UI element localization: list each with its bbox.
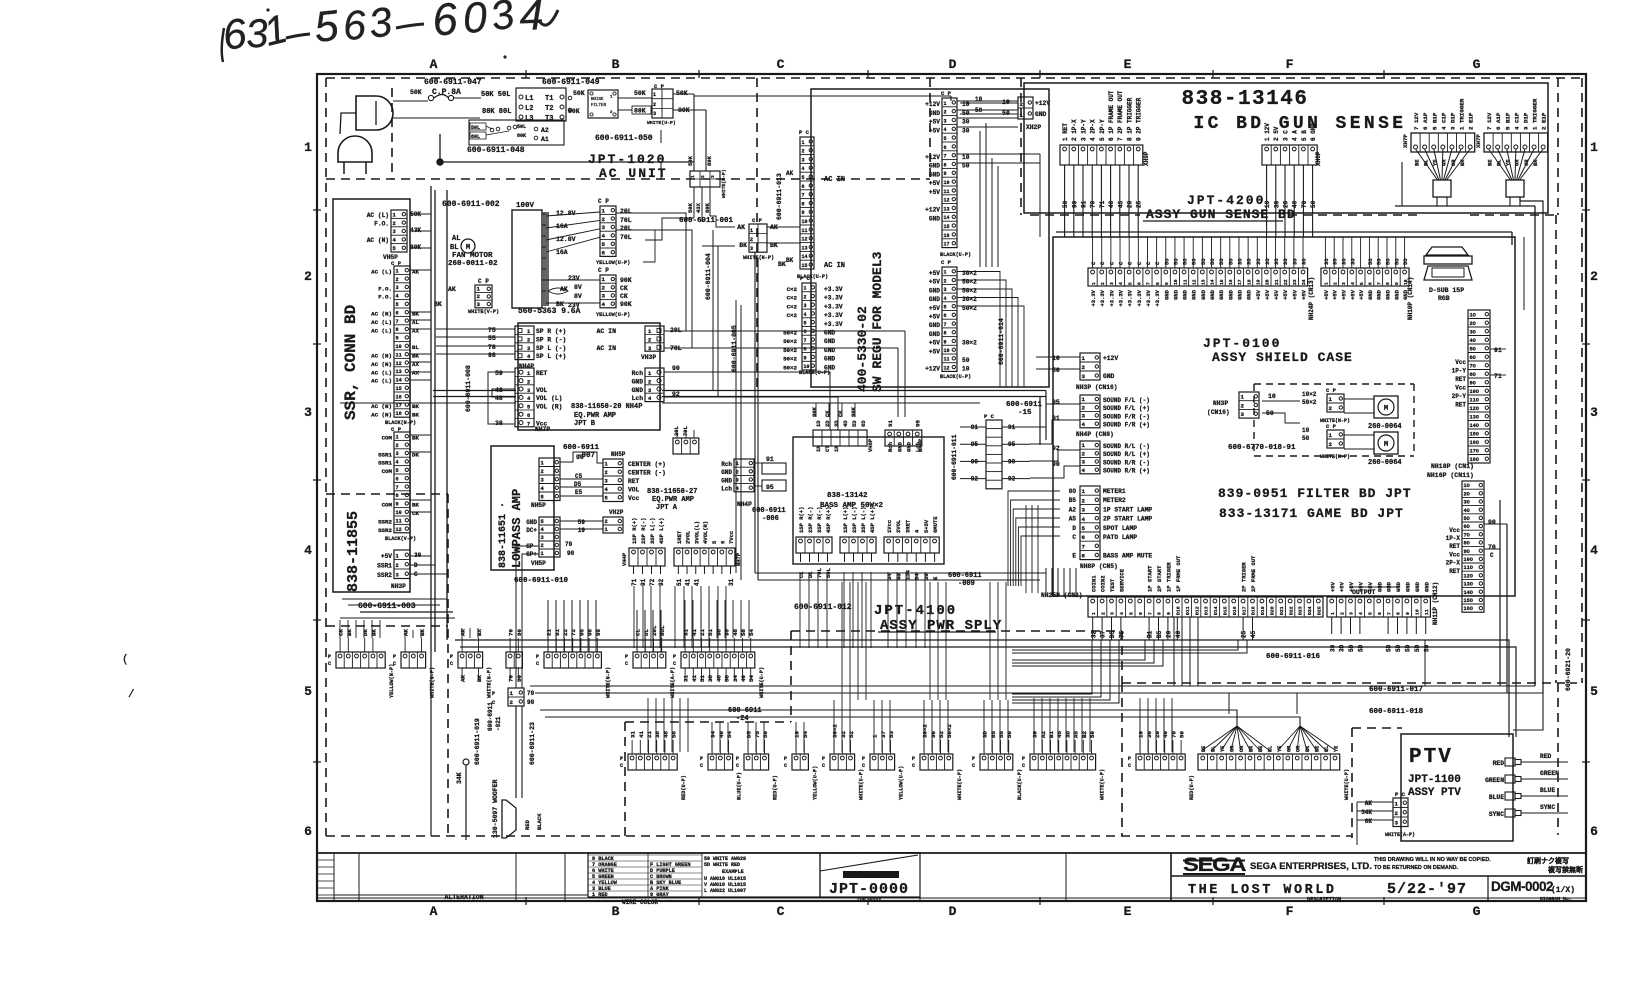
svg-text:2: 2 — [1590, 269, 1598, 284]
svg-text:BK: BK — [786, 257, 794, 264]
svg-text:SSR2: SSR2 — [377, 572, 392, 579]
svg-text:8: 8 — [1385, 282, 1391, 285]
svg-text:3VOL(L): 3VOL(L) — [693, 521, 700, 544]
svg-text:80K 80L: 80K 80L — [482, 108, 511, 116]
svg-text:6 1P FRAME OUT: 6 1P FRAME OUT — [1108, 90, 1115, 141]
svg-text:P: P — [700, 756, 703, 762]
svg-text:600-6911-014: 600-6911-014 — [998, 318, 1005, 365]
svg-text:600-6911-019: 600-6911-019 — [474, 718, 481, 765]
svg-text:BK: BK — [346, 629, 353, 636]
svg-text:L1: L1 — [525, 95, 533, 103]
svg-text:21: 21 — [646, 731, 653, 738]
svg-text:2: 2 — [605, 519, 608, 525]
svg-text:2: 2 — [393, 221, 396, 227]
svg-text:54: 54 — [726, 731, 733, 738]
svg-text:80K: 80K — [706, 155, 713, 166]
svg-text:90K: 90K — [620, 277, 632, 284]
svg-text:AK: AK — [448, 286, 456, 293]
svg-text:3: 3 — [802, 157, 805, 163]
svg-text:11: 11 — [396, 352, 402, 358]
svg-text:5D WHITE RED: 5D WHITE RED — [704, 862, 740, 868]
svg-text:50K: 50K — [687, 155, 694, 166]
svg-text:D: D — [949, 57, 958, 72]
svg-text:COIN2: COIN2 — [1100, 575, 1107, 592]
svg-text:18: 18 — [1246, 279, 1252, 285]
svg-text:20: 20 — [1127, 200, 1134, 208]
svg-text:SEGA ENTERPRISES, LTD.: SEGA ENTERPRISES, LTD. — [1250, 861, 1372, 872]
svg-text:90: 90 — [567, 550, 575, 557]
svg-text:WHITE(A-P): WHITE(A-P) — [670, 667, 676, 698]
svg-text:600-6911: 600-6911 — [1006, 401, 1043, 409]
svg-text:1 12V: 1 12V — [1264, 123, 1271, 141]
svg-text:WHITE(A-P): WHITE(A-P) — [1385, 832, 1415, 838]
svg-text:1: 1 — [393, 212, 396, 218]
svg-text:600-6911-049: 600-6911-049 — [542, 78, 600, 87]
svg-text:2: 2 — [1100, 612, 1106, 615]
svg-text:AC (L): AC (L) — [371, 269, 392, 276]
svg-text:92: 92 — [658, 578, 665, 586]
svg-text:EQ.PWR AMP: EQ.PWR AMP — [652, 496, 694, 504]
svg-text:14: 14 — [802, 254, 808, 260]
svg-text:B5: B5 — [1069, 497, 1077, 504]
svg-text:50×2: 50×2 — [783, 356, 797, 363]
svg-text:P C: P C — [1395, 791, 1406, 798]
svg-text:AC (L): AC (L) — [371, 319, 392, 326]
svg-text:1Vcc: 1Vcc — [886, 520, 893, 533]
svg-text:D5: D5 — [746, 731, 753, 738]
svg-text:1N: 1N — [833, 445, 840, 452]
svg-text:2: 2 — [1082, 364, 1086, 371]
svg-text:50×2: 50×2 — [783, 338, 797, 345]
svg-text:10: 10 — [1415, 609, 1421, 615]
svg-text:JPT A: JPT A — [656, 504, 678, 512]
svg-text:10: 10 — [794, 731, 801, 738]
svg-text:50K: 50K — [634, 90, 646, 97]
svg-text:WHITE(N-P): WHITE(N-P) — [743, 255, 774, 261]
svg-text:10: 10 — [1052, 355, 1060, 362]
svg-text:AK: AK — [786, 170, 794, 177]
svg-text:NH7P: NH7P — [535, 426, 550, 433]
svg-text:15O: 15O — [1464, 598, 1473, 604]
svg-text:600-6911-002: 600-6911-002 — [442, 200, 500, 209]
svg-text:GND: GND — [1385, 289, 1392, 300]
svg-text:2 E1P: 2 E1P — [1468, 112, 1475, 130]
svg-text:20L: 20L — [620, 208, 632, 215]
svg-text:G: G — [1473, 57, 1482, 72]
svg-text:3D: 3D — [1064, 731, 1071, 738]
svg-text:BK: BK — [778, 261, 786, 268]
svg-text:Lch: Lch — [721, 486, 732, 493]
svg-text:4: 4 — [519, 0, 545, 40]
svg-text:30: 30 — [1273, 200, 1280, 208]
svg-text:D24: D24 — [1307, 606, 1313, 615]
svg-text:600-6911: 600-6911 — [948, 572, 982, 580]
svg-text:1SP L(+): 1SP L(+) — [842, 507, 849, 533]
svg-text:91: 91 — [640, 578, 647, 586]
svg-text:14O: 14O — [1470, 423, 1479, 429]
svg-text:15: 15 — [396, 386, 402, 392]
svg-text:C P: C P — [598, 198, 609, 205]
svg-text:SOUND F/L (-): SOUND F/L (-) — [1103, 397, 1150, 404]
svg-text:C: C — [777, 904, 786, 919]
svg-text:BLACK(U-P): BLACK(U-P) — [940, 252, 971, 258]
svg-text:6: 6 — [1368, 282, 1374, 285]
svg-text:50: 50 — [1423, 644, 1430, 652]
svg-text:8: 8 — [1396, 612, 1402, 615]
svg-text:2P-Y: 2P-Y — [1452, 393, 1467, 400]
svg-text:400-5330-02: 400-5330-02 — [855, 306, 870, 392]
svg-text:600-6911-008: 600-6911-008 — [465, 365, 472, 412]
svg-text:ASSY SHIELD CASE: ASSY SHIELD CASE — [1212, 350, 1353, 365]
svg-text:3D: 3D — [1339, 644, 1346, 652]
svg-text:3O: 3O — [1464, 500, 1470, 506]
svg-text:DIAGRAM No.: DIAGRAM No. — [1540, 896, 1572, 902]
svg-text:3: 3 — [396, 285, 399, 291]
svg-text:50K: 50K — [573, 90, 585, 97]
svg-text:50×2: 50×2 — [783, 364, 797, 371]
svg-text:3: 3 — [710, 175, 716, 178]
svg-text:11: 11 — [396, 518, 402, 524]
svg-text:6: 6 — [804, 329, 807, 335]
svg-text:1N: 1N — [815, 445, 822, 452]
svg-text:12: 12 — [944, 198, 950, 204]
svg-text:2: 2 — [1332, 282, 1338, 285]
svg-text:D17: D17 — [1241, 606, 1247, 615]
svg-text:5: 5 — [1368, 612, 1374, 615]
svg-text:+5V: +5V — [1341, 289, 1348, 300]
svg-text:38: 38 — [654, 731, 661, 738]
svg-text:+3.3V: +3.3V — [1145, 289, 1152, 306]
svg-text:2: 2 — [541, 469, 544, 475]
svg-text:GND: GND — [1393, 289, 1400, 300]
svg-text:3O: 3O — [1349, 258, 1356, 265]
svg-text:+5V: +5V — [929, 119, 940, 126]
svg-text:4VOL(R): 4VOL(R) — [702, 521, 709, 544]
svg-text:600-6911-047: 600-6911-047 — [424, 78, 482, 87]
svg-text:BLACK(U-P): BLACK(U-P) — [799, 370, 830, 376]
svg-text:+5V: +5V — [381, 553, 392, 560]
svg-text:95: 95 — [915, 420, 922, 427]
svg-text:1: 1 — [1395, 801, 1399, 808]
svg-text:1: 1 — [653, 92, 656, 98]
svg-text:10: 10 — [396, 344, 402, 350]
svg-text:40: 40 — [1175, 630, 1182, 638]
svg-text:6: 6 — [341, 1, 367, 48]
svg-text:A2: A2 — [1040, 731, 1047, 738]
svg-text:C: C — [393, 661, 396, 667]
svg-text:4: 4 — [1082, 516, 1086, 523]
svg-text:THIS DRAWING WILL IN NO WAY B: THIS DRAWING WILL IN NO WAY BE COPIED. — [1374, 857, 1491, 863]
svg-text:20L: 20L — [620, 225, 632, 232]
svg-text:GREEN: GREEN — [1540, 770, 1559, 777]
svg-text:C: C — [972, 763, 975, 769]
svg-text:3: 3 — [1082, 373, 1086, 380]
svg-text:2: 2 — [1329, 405, 1333, 412]
svg-text:1: 1 — [605, 527, 608, 533]
svg-text:5: 5 — [396, 302, 399, 308]
svg-text:16: 16 — [1228, 279, 1234, 285]
svg-text:20: 20 — [1265, 279, 1271, 285]
svg-text:38: 38 — [707, 675, 714, 682]
svg-text:METER1: METER1 — [1103, 488, 1126, 495]
svg-text:B1: B1 — [1147, 630, 1154, 638]
svg-text:5D: 5D — [1395, 644, 1402, 652]
svg-text:30×2: 30×2 — [962, 340, 977, 347]
svg-text:600-6911: 600-6911 — [728, 707, 762, 715]
svg-text:C: C — [450, 661, 453, 667]
svg-text:Vcc: Vcc — [1455, 359, 1466, 366]
svg-text:8: 8 — [944, 162, 947, 168]
svg-text:5: 5 — [304, 684, 312, 699]
svg-text:1: 1 — [1241, 394, 1245, 401]
svg-text:1: 1 — [804, 286, 807, 292]
svg-text:90: 90 — [576, 454, 584, 461]
svg-text:7 2P FRAME OUT: 7 2P FRAME OUT — [1117, 90, 1124, 141]
svg-text:100V: 100V — [516, 202, 535, 210]
svg-text:+5V: +5V — [1255, 289, 1262, 300]
svg-text:70L: 70L — [620, 217, 632, 224]
svg-text:9: 9 — [802, 210, 805, 216]
svg-text:BLUE: BLUE — [1489, 794, 1504, 801]
svg-text:7: 7 — [804, 338, 807, 344]
svg-text:BLUE(U-P): BLUE(U-P) — [737, 772, 743, 800]
svg-text:DK: DK — [362, 629, 369, 636]
svg-text:2: 2 — [477, 293, 481, 300]
svg-text:50×2: 50×2 — [946, 724, 953, 738]
svg-text:30: 30 — [1146, 731, 1153, 738]
svg-text:838-11650-20 NH4P: 838-11650-20 NH4P — [571, 403, 642, 411]
svg-text:5 B: 5 B — [1301, 130, 1308, 141]
svg-text:10: 10 — [944, 180, 950, 186]
svg-text:2: 2 — [304, 269, 312, 284]
svg-text:AC IN: AC IN — [824, 262, 845, 270]
svg-text:50: 50 — [1310, 200, 1317, 208]
svg-text:JPT-1020: JPT-1020 — [588, 152, 666, 167]
svg-text:7: 7 — [1082, 543, 1086, 550]
svg-text:9: 9 — [1394, 282, 1400, 285]
svg-text:3D: 3D — [982, 731, 989, 738]
svg-text:TEST: TEST — [1109, 578, 1116, 592]
svg-text:50: 50 — [762, 731, 769, 738]
svg-text:12: 12 — [944, 365, 950, 371]
svg-text:C: C — [328, 661, 331, 667]
svg-text:5O: 5O — [1464, 516, 1470, 522]
svg-text:+5V: +5V — [1323, 289, 1330, 300]
svg-text:F: F — [1286, 57, 1295, 72]
svg-text:CK: CK — [620, 285, 628, 292]
svg-text:5D: 5D — [1386, 644, 1393, 652]
svg-text:600-6911-013: 600-6911-013 — [776, 173, 783, 220]
svg-text:VOL: VOL — [536, 387, 548, 394]
svg-text:WHITE(U-P): WHITE(U-P) — [859, 769, 865, 800]
svg-text:51: 51 — [699, 675, 706, 682]
svg-text:+3.3V: +3.3V — [1108, 289, 1115, 306]
svg-text:3O: 3O — [1291, 258, 1298, 265]
svg-text:260-0011-02: 260-0011-02 — [448, 260, 498, 268]
svg-text:40: 40 — [740, 675, 747, 682]
svg-text:10: 10 — [962, 101, 970, 108]
svg-text:SSR2: SSR2 — [378, 519, 392, 526]
svg-text:SSR1: SSR1 — [378, 451, 392, 458]
svg-text:1 TRIGGER: 1 TRIGGER — [1532, 98, 1539, 130]
svg-text:SSR1: SSR1 — [377, 563, 392, 570]
svg-text:75: 75 — [754, 731, 761, 738]
svg-text:BK: BK — [412, 403, 419, 410]
svg-text:+3.3V: +3.3V — [1154, 289, 1161, 306]
svg-text:32: 32 — [1090, 630, 1097, 638]
svg-text:6O: 6O — [1464, 524, 1470, 530]
svg-text:-021: -021 — [495, 716, 502, 731]
svg-text:3: 3 — [1590, 405, 1598, 420]
svg-text:BL: BL — [1495, 159, 1502, 166]
svg-text:P: P — [1128, 756, 1131, 762]
svg-text:1: 1 — [304, 140, 312, 155]
svg-text:600-6911-050: 600-6911-050 — [595, 134, 653, 143]
svg-text:4 A: 4 A — [1292, 130, 1299, 141]
svg-text:+3.3V: +3.3V — [1127, 289, 1134, 306]
svg-text:12O: 12O — [1464, 573, 1473, 579]
svg-text:70: 70 — [1090, 200, 1097, 208]
svg-text:1P-Y: 1P-Y — [1452, 368, 1467, 375]
svg-text:P C: P C — [984, 413, 995, 420]
svg-text:19: 19 — [578, 527, 586, 534]
svg-text:3D: 3D — [833, 420, 840, 427]
svg-text:BL: BL — [1267, 746, 1273, 752]
svg-text:53: 53 — [888, 731, 895, 738]
svg-text:5 B1P: 5 B1P — [1504, 112, 1511, 130]
svg-text:SYNC: SYNC — [1489, 811, 1504, 818]
svg-text:3O: 3O — [1470, 330, 1476, 336]
svg-text:55: 55 — [998, 731, 1005, 738]
svg-text:12: 12 — [396, 527, 402, 533]
svg-text:6: 6 — [1138, 612, 1144, 615]
svg-text:50: 50 — [1052, 367, 1060, 374]
svg-text:14: 14 — [944, 215, 950, 221]
svg-text:10: 10 — [1138, 731, 1145, 738]
svg-text:+3.3V: +3.3V — [824, 303, 843, 310]
svg-text:P: P — [673, 654, 676, 660]
svg-text:AK: AK — [560, 286, 568, 293]
svg-text:Vcc: Vcc — [1455, 385, 1466, 392]
svg-text:50: 50 — [962, 163, 970, 170]
svg-text:+5V: +5V — [929, 127, 940, 134]
svg-text:2: 2 — [1241, 402, 1245, 409]
svg-text:600-6911-018: 600-6911-018 — [1369, 708, 1424, 716]
svg-text:3 D1P: 3 D1P — [1449, 112, 1456, 130]
svg-text:7: 7 — [527, 421, 530, 427]
svg-text:90: 90 — [1071, 200, 1078, 208]
svg-text:D14: D14 — [1213, 606, 1219, 615]
svg-text:3: 3 — [393, 229, 396, 235]
svg-text:VOL (R): VOL (R) — [536, 404, 562, 411]
svg-text:CK: CK — [620, 293, 628, 300]
svg-text:6 A1P: 6 A1P — [1422, 112, 1429, 130]
svg-text:1RET: 1RET — [676, 530, 683, 544]
svg-text:RET: RET — [628, 478, 640, 485]
svg-text:XH2P: XH2P — [1026, 124, 1041, 131]
svg-text:VOL: VOL — [628, 487, 640, 494]
svg-text:GND: GND — [929, 331, 940, 338]
svg-text:5 B1P: 5 B1P — [1431, 112, 1438, 130]
svg-text:1O: 1O — [1464, 483, 1470, 489]
svg-text:B5: B5 — [1156, 630, 1163, 638]
svg-text:260-0064: 260-0064 — [1368, 423, 1402, 431]
svg-text:54: 54 — [748, 675, 755, 682]
svg-text:AC (L): AC (L) — [371, 327, 392, 334]
svg-text:BE: BE — [1486, 159, 1493, 166]
svg-text:2: 2 — [736, 469, 739, 475]
svg-text:VH6P: VH6P — [867, 438, 874, 452]
svg-text:P: P — [492, 691, 495, 697]
svg-text:21: 21 — [699, 629, 706, 636]
svg-text:3RET: 3RET — [904, 519, 911, 533]
svg-text:50L: 50L — [471, 125, 480, 131]
svg-text:JPT-1100: JPT-1100 — [1408, 774, 1461, 786]
svg-text:+5V: +5V — [1282, 289, 1289, 300]
svg-text:3O: 3O — [1264, 258, 1271, 265]
svg-text:52: 52 — [938, 731, 945, 738]
svg-text:G: G — [1473, 904, 1482, 919]
svg-text:BE: BE — [1413, 159, 1420, 166]
svg-text:8V: 8V — [574, 293, 582, 300]
svg-text:48: 48 — [715, 675, 722, 682]
svg-text:3SP L(-): 3SP L(-) — [860, 507, 867, 533]
svg-text:3: 3 — [1395, 820, 1399, 827]
svg-text:+3.3V: +3.3V — [824, 312, 843, 319]
svg-text:4O: 4O — [1470, 338, 1476, 344]
svg-text:7O: 7O — [1464, 532, 1470, 538]
svg-text:BL: BL — [1422, 159, 1429, 166]
svg-text:1: 1 — [396, 434, 399, 440]
svg-text:F.O.: F.O. — [378, 294, 392, 301]
svg-text:8: 8 — [944, 331, 947, 337]
svg-text:41: 41 — [685, 578, 692, 586]
svg-text:21: 21 — [546, 629, 553, 636]
svg-text:A: A — [430, 57, 439, 72]
svg-text:90: 90 — [672, 365, 680, 372]
svg-text:5O: 5O — [1182, 258, 1189, 265]
svg-text:70L: 70L — [620, 234, 632, 241]
svg-text:6 GND: 6 GND — [1310, 123, 1317, 141]
svg-text:WHITE(V-P): WHITE(V-P) — [468, 309, 499, 315]
svg-text:C P: C P — [752, 217, 763, 224]
svg-text:4 2P-X: 4 2P-X — [1090, 119, 1097, 141]
svg-text:2: 2 — [541, 543, 544, 549]
svg-text:5O: 5O — [1376, 258, 1383, 265]
svg-text:D12: D12 — [1194, 606, 1200, 615]
svg-text:AC IN: AC IN — [824, 176, 845, 184]
svg-text:14: 14 — [396, 378, 402, 384]
svg-text:WHITE(U-P): WHITE(U-P) — [759, 667, 765, 698]
svg-text:3: 3 — [736, 478, 739, 484]
svg-text:P: P — [625, 654, 628, 660]
svg-text:30×2: 30×2 — [832, 724, 839, 738]
svg-text:GND: GND — [906, 441, 913, 452]
svg-text:1: 1 — [1091, 612, 1097, 615]
svg-text:50: 50 — [1006, 731, 1013, 738]
svg-text:71: 71 — [631, 578, 638, 586]
svg-text:31: 31 — [683, 675, 690, 682]
svg-text:P: P — [1022, 756, 1025, 762]
svg-text:838-13146: 838-13146 — [1182, 88, 1309, 111]
svg-text:COM: COM — [382, 468, 393, 475]
svg-text:12: 12 — [396, 361, 402, 367]
svg-text:YE: YE — [1220, 746, 1226, 752]
svg-text:1D: 1D — [815, 420, 822, 427]
svg-text:41: 41 — [693, 578, 700, 586]
svg-text:75: 75 — [488, 327, 496, 334]
svg-text:40: 40 — [895, 573, 902, 580]
